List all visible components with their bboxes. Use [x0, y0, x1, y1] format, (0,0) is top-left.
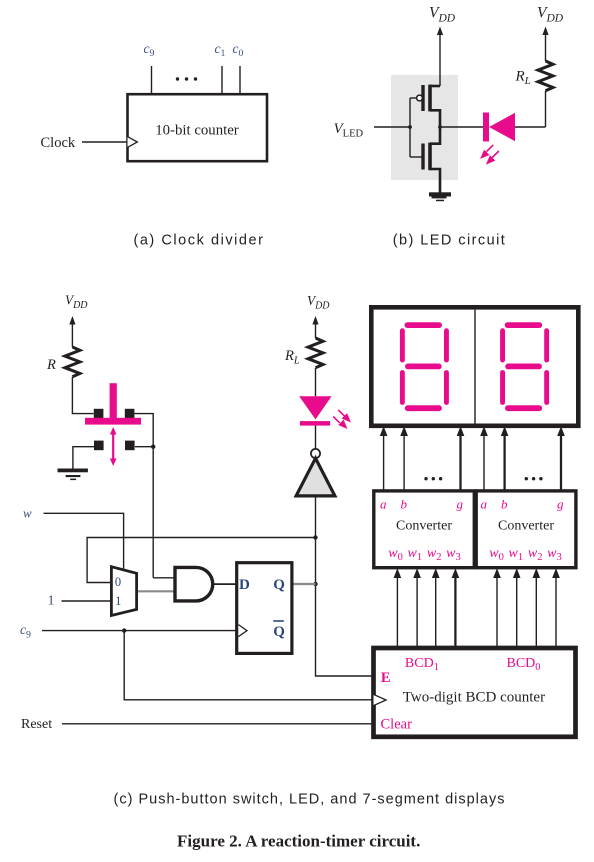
svg-text:VDD: VDD [307, 293, 330, 312]
svg-text:10-bit counter: 10-bit counter [155, 123, 238, 139]
svg-text:Q: Q [273, 577, 285, 593]
svg-text:Converter: Converter [396, 519, 452, 534]
svg-text:a: a [380, 497, 387, 512]
svg-text:D: D [239, 577, 250, 593]
svg-text:1: 1 [115, 594, 121, 608]
svg-text:(c) Push-button switch, LED, a: (c) Push-button switch, LED, and 7-segme… [114, 791, 506, 807]
svg-text:RL: RL [515, 69, 531, 88]
svg-text:g: g [457, 497, 464, 512]
svg-text:E: E [381, 670, 391, 686]
svg-text:VDD: VDD [537, 5, 564, 25]
svg-text:VDD: VDD [429, 5, 456, 25]
svg-text:c9: c9 [144, 41, 155, 59]
svg-text:Figure 2. A reaction-timer cir: Figure 2. A reaction-timer circuit. [177, 832, 420, 851]
svg-text:c1: c1 [215, 41, 226, 59]
svg-text:VLED: VLED [334, 121, 364, 140]
svg-text:Clock: Clock [41, 135, 76, 151]
svg-text:Clear: Clear [381, 716, 413, 732]
svg-text:b: b [501, 497, 508, 512]
svg-text:Converter: Converter [498, 519, 554, 534]
svg-text:b: b [401, 497, 408, 512]
svg-text:1: 1 [48, 594, 55, 609]
svg-text:(a) Clock divider: (a) Clock divider [133, 233, 264, 249]
svg-text:c0: c0 [233, 41, 244, 59]
svg-text:w: w [23, 506, 32, 521]
svg-text:Two-digit BCD counter: Two-digit BCD counter [403, 690, 545, 706]
svg-text:R: R [46, 357, 56, 373]
svg-text:RL: RL [284, 348, 300, 367]
svg-text:Q: Q [273, 624, 285, 640]
svg-text:0: 0 [115, 575, 121, 589]
svg-text:a: a [481, 497, 488, 512]
svg-text:Reset: Reset [21, 717, 52, 732]
svg-text:VDD: VDD [65, 293, 88, 312]
svg-text:(b) LED circuit: (b) LED circuit [393, 233, 507, 249]
svg-text:g: g [557, 497, 564, 512]
svg-text:c9: c9 [20, 622, 31, 640]
